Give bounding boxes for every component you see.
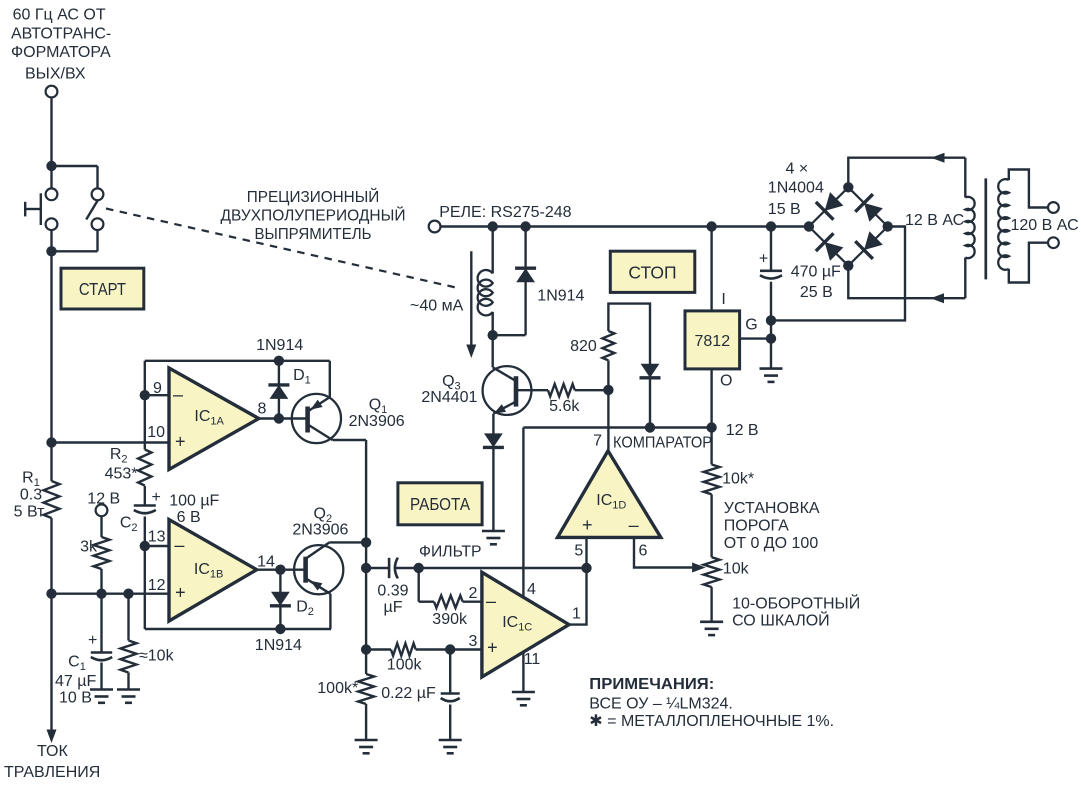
svg-text:8: 8 <box>258 401 267 418</box>
wire <box>50 97 52 166</box>
wire IC1C pin 11 <box>522 652 524 692</box>
wire filter <box>419 567 587 569</box>
ground Q3 <box>482 530 505 533</box>
op-amp IC1A <box>169 368 259 470</box>
svg-text:1N914: 1N914 <box>255 637 302 654</box>
node 0.39uF tee <box>361 563 371 573</box>
svg-text:12 В АС: 12 В АС <box>905 212 964 229</box>
svg-text:СО ШКАЛОЙ: СО ШКАЛОЙ <box>732 611 830 630</box>
wire <box>144 486 146 506</box>
node cap 470 top <box>766 221 776 231</box>
svg-text:+: + <box>175 582 186 602</box>
wire Q2 emitter down <box>329 594 331 629</box>
regulator 7812 <box>685 311 740 369</box>
svg-text:2: 2 <box>469 585 478 602</box>
svg-text:1: 1 <box>572 606 581 623</box>
svg-text:10 В: 10 В <box>59 690 92 707</box>
svg-text:+: + <box>759 251 768 268</box>
svg-text:120 В АС: 120 В АС <box>1011 217 1079 234</box>
node filter left <box>414 563 424 573</box>
wire 12V rail <box>523 426 711 428</box>
wire IC1A feedback top <box>145 360 330 362</box>
svg-text:100 µF: 100 µF <box>169 493 219 510</box>
resistor R1 <box>44 481 60 518</box>
wire Q3 collector <box>492 335 494 367</box>
capacitor 0.39 uF <box>366 567 389 569</box>
wire etch current <box>50 594 52 734</box>
svg-text:ВСЕ ОУ – ¼LM324.: ВСЕ ОУ – ¼LM324. <box>589 696 733 713</box>
wire left rail upper <box>50 251 52 481</box>
transistor Q2 2N3906 <box>294 545 343 594</box>
svg-text:✱ = МЕТАЛЛОПЛЕНОЧНЫЕ 1%.: ✱ = МЕТАЛЛОПЛЕНОЧНЫЕ 1%. <box>589 713 834 730</box>
node pin 9 tee <box>140 390 150 400</box>
node bridge bottom <box>843 261 853 271</box>
svg-text:6: 6 <box>639 543 648 560</box>
svg-text:100k*: 100k* <box>317 680 358 697</box>
svg-text:5 Вт: 5 Вт <box>14 504 45 521</box>
wire 7812 input <box>710 227 712 311</box>
node 12V tap <box>96 589 106 599</box>
wire left loop rail <box>144 361 146 450</box>
op-amp IC1B <box>169 520 257 622</box>
svg-text:+: + <box>152 489 161 506</box>
node IC1B output <box>275 565 285 575</box>
bridge diode bottom-left <box>816 233 846 263</box>
node 0.22uF tee <box>445 644 455 654</box>
svg-text:2N3906: 2N3906 <box>292 522 348 539</box>
diode Q3 emitter <box>492 414 494 435</box>
op-amp IC1D <box>558 451 661 538</box>
node switch bottom <box>46 246 56 256</box>
dashed annotation line <box>106 209 458 289</box>
op-amp IC1C <box>482 572 569 677</box>
arrow coil current <box>470 251 472 350</box>
wire IC1A output <box>259 417 308 419</box>
svg-text:6 В: 6 В <box>177 509 201 526</box>
svg-text:+: + <box>88 632 97 649</box>
svg-text:КОМПАРАТОР: КОМПАРАТОР <box>613 435 712 452</box>
node D2 bottom <box>275 624 285 634</box>
wire <box>50 518 52 594</box>
transistor Q1 2N3906 <box>292 394 341 443</box>
wire bottom horizontal to IC1B <box>52 593 170 595</box>
terminal relay <box>429 221 441 233</box>
ground C1 <box>90 688 113 691</box>
svg-text:ОТ 0 ДО 100: ОТ 0 ДО 100 <box>724 535 819 552</box>
svg-text:12: 12 <box>148 577 166 594</box>
wire bridge bottom to transformer <box>848 266 965 299</box>
bridge diode bottom-right <box>855 229 885 259</box>
ground 0.22uF <box>439 739 462 742</box>
wire to IC1B pin 13 <box>145 545 169 547</box>
svg-text:820: 820 <box>570 338 597 355</box>
svg-text:~40 мА: ~40 мА <box>410 298 464 315</box>
svg-text:470 µF: 470 µF <box>791 264 841 281</box>
node stop diode bottom <box>645 422 655 432</box>
wire IC1B output <box>257 569 306 571</box>
wire IC1C pin 4 supply <box>522 428 524 598</box>
node relay bottom <box>488 330 498 340</box>
svg-text:13: 13 <box>148 529 166 546</box>
wire IC1C output <box>569 568 587 625</box>
node cap bottom <box>766 315 776 325</box>
svg-text:0.39: 0.39 <box>377 583 408 600</box>
potentiometer 10k <box>704 557 720 587</box>
relay coil <box>492 227 494 274</box>
svg-text:5: 5 <box>574 543 583 560</box>
svg-text:ПОРОГА: ПОРОГА <box>724 518 789 535</box>
node G <box>766 333 776 343</box>
svg-text:ПРИМЕЧАНИЯ:: ПРИМЕЧАНИЯ: <box>589 676 714 693</box>
svg-text:СТАРТ: СТАРТ <box>79 279 126 299</box>
svg-text:АВТОТРАНС-: АВТОТРАНС- <box>11 26 111 43</box>
ground IC1C pin 11 <box>512 691 535 694</box>
arrow top <box>931 153 945 163</box>
node pin 7 / 5.6k / 820 <box>603 385 613 395</box>
node Q1-Q2 collectors <box>361 537 371 547</box>
wire IC1D pin 6 <box>634 537 698 567</box>
bridge diode top-left <box>816 190 846 220</box>
svg-text:12 В: 12 В <box>726 422 759 439</box>
node bridge right <box>883 221 893 231</box>
svg-text:7: 7 <box>593 433 602 450</box>
svg-text:10k: 10k <box>723 561 750 578</box>
diode D1 1N914 <box>278 361 280 384</box>
svg-text:+: + <box>582 515 593 535</box>
svg-text:100k: 100k <box>387 657 423 674</box>
svg-text:ВЫХ/ВХ: ВЫХ/ВХ <box>25 66 86 83</box>
svg-text:+: + <box>175 432 186 452</box>
svg-text:–: – <box>486 591 496 611</box>
svg-text:ДВУХПОЛУПЕРИОДНЫЙ: ДВУХПОЛУПЕРИОДНЫЙ <box>221 206 406 225</box>
resistor 3k <box>94 537 110 569</box>
bridge diode top-right <box>855 194 885 224</box>
wire DC minus rail <box>771 227 905 321</box>
wire <box>365 568 367 650</box>
node IC1C output to filter <box>581 563 591 573</box>
terminal 120V top <box>1048 202 1059 213</box>
wire feedback bottom <box>145 628 331 630</box>
svg-text:47 µF: 47 µF <box>55 673 96 690</box>
arrow bottom <box>931 293 945 303</box>
node 7812 input <box>706 221 716 231</box>
svg-text:РЕЛЕ: RS275-248: РЕЛЕ: RS275-248 <box>439 204 571 221</box>
diode relay 1N914 <box>524 227 526 267</box>
node 10k tap <box>123 589 133 599</box>
svg-text:2N4401: 2N4401 <box>421 389 477 406</box>
wire to IC1A pin 10 <box>52 441 170 443</box>
arrow potentiometer wiper <box>692 563 706 573</box>
node pin10 tee <box>46 437 56 447</box>
node relay diode top <box>520 221 530 231</box>
node bridge top <box>843 182 853 192</box>
svg-text:–: – <box>173 385 183 405</box>
svg-text:2N3906: 2N3906 <box>349 413 405 430</box>
svg-text:0.22 µF: 0.22 µF <box>381 685 436 702</box>
wire <box>365 440 367 568</box>
capacitor 470 uF <box>770 227 772 271</box>
label box START <box>61 268 144 309</box>
svg-text:–: – <box>629 515 639 535</box>
node switch top <box>46 161 56 171</box>
bridge rectifier 4x1N4004 <box>809 187 888 265</box>
svg-text:9: 9 <box>153 380 162 397</box>
svg-text:ПРЕЦИЗИОННЫЙ: ПРЕЦИЗИОННЫЙ <box>247 187 380 206</box>
wire <box>100 569 102 594</box>
svg-text:ТРАВЛЕНИЯ: ТРАВЛЕНИЯ <box>4 764 100 781</box>
node relay coil top <box>488 221 498 231</box>
svg-text:1N914: 1N914 <box>537 288 584 305</box>
resistor R2 453 <box>138 450 151 486</box>
ground 470uF <box>760 367 783 370</box>
arrow etch current <box>47 730 57 744</box>
terminal input <box>46 86 58 98</box>
wire to IC1A pin 9 <box>145 394 169 396</box>
label box RABOTA <box>398 483 482 525</box>
svg-text:10-ОБОРОТНЫЙ: 10-ОБОРОТНЫЙ <box>732 594 860 613</box>
switch S1 START <box>50 166 52 189</box>
terminal 120V bottom <box>1048 237 1059 248</box>
transistor Q3 2N4401 <box>483 366 532 415</box>
resistor 10k star <box>704 465 720 495</box>
wire <box>100 516 102 537</box>
capacitor C1 <box>100 594 102 653</box>
resistor 100k <box>366 648 391 650</box>
transformer primary 12V winding <box>964 158 966 198</box>
resistor approx 10k <box>127 594 129 641</box>
svg-text:1N4004: 1N4004 <box>768 180 824 197</box>
svg-text:I: I <box>721 291 725 308</box>
svg-text:µF: µF <box>384 599 403 616</box>
label box STOP <box>610 251 695 292</box>
wire IC1D pin 5 <box>585 537 587 568</box>
transformer core <box>984 178 987 279</box>
wire bridge top to transformer <box>848 158 965 188</box>
svg-text:4 ×: 4 × <box>786 161 809 178</box>
svg-text:СТОП: СТОП <box>628 263 676 283</box>
svg-text:–: – <box>174 535 184 555</box>
node pin 13 tee <box>140 541 150 551</box>
svg-text:10k*: 10k* <box>722 471 754 488</box>
wire IC1D pin 7 <box>607 390 609 451</box>
svg-text:4: 4 <box>527 581 536 598</box>
wire 7812 ground pin <box>740 337 771 339</box>
svg-text:0.3: 0.3 <box>20 487 42 504</box>
svg-text:390k: 390k <box>432 611 468 628</box>
wire 7812 output <box>710 369 712 465</box>
svg-text:≈10k: ≈10k <box>139 648 175 665</box>
svg-text:РАБОТА: РАБОТА <box>410 494 470 514</box>
svg-text:5.6k: 5.6k <box>549 398 580 415</box>
resistor 820 <box>607 360 609 390</box>
svg-text:ТОК: ТОК <box>37 743 69 760</box>
svg-text:ФОРМАТОРА: ФОРМАТОРА <box>11 44 111 61</box>
svg-text:25 В: 25 В <box>800 284 833 301</box>
resistor 390k <box>418 568 420 602</box>
svg-text:1N914: 1N914 <box>256 337 303 354</box>
wire Q2 collector <box>329 541 366 543</box>
node D1 top <box>274 356 284 366</box>
svg-text:3k: 3k <box>80 539 98 556</box>
resistor 5.6k <box>516 389 548 391</box>
node 100k tee <box>361 644 371 654</box>
svg-text:453*: 453* <box>105 466 138 483</box>
capacitor 0.22 uF <box>449 650 451 694</box>
ground approx 10k <box>117 688 140 691</box>
svg-text:+: + <box>487 637 498 657</box>
svg-text:3: 3 <box>469 633 478 650</box>
svg-text:7812: 7812 <box>695 333 731 350</box>
svg-text:O: O <box>720 373 732 390</box>
diode D2 1N914 <box>279 570 281 593</box>
svg-text:ВЫПРЯМИТЕЛЬ: ВЫПРЯМИТЕЛЬ <box>255 226 372 243</box>
svg-text:G: G <box>745 317 757 334</box>
node IC1A output <box>274 413 284 423</box>
wire Q1 collector down <box>333 439 367 441</box>
ground potentiometer <box>700 620 723 623</box>
svg-text:10: 10 <box>147 424 165 441</box>
svg-text:ФИЛЬТР: ФИЛЬТР <box>419 544 482 561</box>
svg-text:15 В: 15 В <box>768 201 801 218</box>
node bottom rail tee <box>46 589 56 599</box>
svg-text:60 Гц АС ОТ: 60 Гц АС ОТ <box>13 7 106 24</box>
svg-text:14: 14 <box>257 554 275 571</box>
diode stop <box>640 364 661 378</box>
wire <box>144 517 146 630</box>
node bridge left <box>804 221 814 231</box>
ground 100k star <box>355 739 378 742</box>
svg-text:УСТАНОВКА: УСТАНОВКА <box>724 500 820 517</box>
resistor 100k star <box>358 674 374 704</box>
wire relay rail <box>440 225 809 227</box>
svg-text:11: 11 <box>524 651 541 668</box>
transformer secondary 120V winding <box>998 179 1009 270</box>
wire Q1 emitter up <box>329 361 331 397</box>
node 7812 output rail <box>706 422 716 432</box>
